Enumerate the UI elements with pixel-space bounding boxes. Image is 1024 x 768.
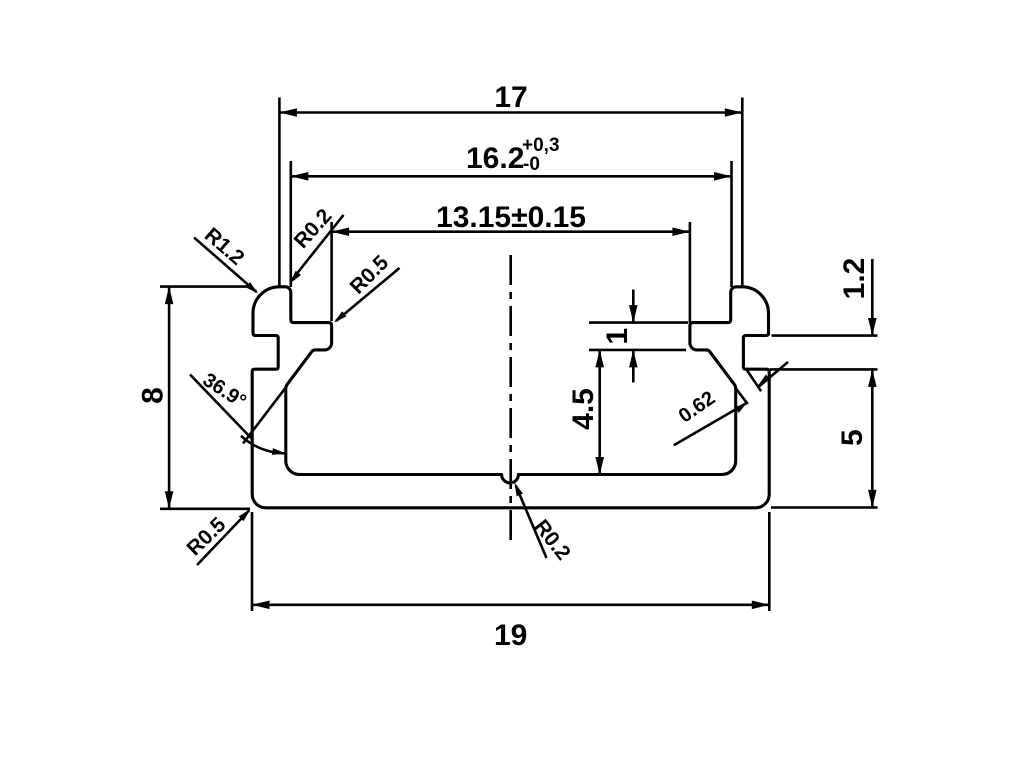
label R1.2 (lobe outer radius)	[194, 223, 260, 296]
label R0.2 (top lip corner radius)	[287, 204, 343, 285]
svg-text:5: 5	[836, 429, 869, 446]
dimension 5 (right, base height)	[770, 369, 878, 507]
svg-text:-0: -0	[523, 154, 540, 175]
label R0.5 (hook ledge corner radius)	[332, 251, 400, 325]
centerline	[509, 255, 512, 547]
dimension 1.2 (right, flange thickness)	[772, 258, 878, 336]
svg-text:8: 8	[137, 387, 170, 404]
dimension 19 (bottom width)	[252, 512, 769, 652]
label R0.5 (bottom corner radius)	[183, 507, 253, 565]
svg-text:4.5: 4.5	[567, 388, 600, 430]
dimension 4.5 (inner depth)	[567, 350, 604, 475]
svg-text:1: 1	[601, 328, 634, 345]
svg-text:17: 17	[494, 81, 527, 114]
svg-text:13.15±0.15: 13.15±0.15	[436, 201, 586, 234]
profile cross-section outline	[252, 287, 769, 508]
svg-text:19: 19	[494, 619, 527, 652]
dimension 13.15±0.15	[332, 201, 690, 323]
svg-text:R0.2: R0.2	[290, 204, 337, 252]
label R0.2 (floor dimple radius)	[511, 481, 574, 564]
dimension 17	[279, 81, 742, 286]
svg-text:+0,3: +0,3	[522, 135, 560, 156]
svg-text:1.2: 1.2	[838, 258, 871, 300]
svg-text:R0.2: R0.2	[529, 515, 574, 564]
svg-text:36.9°: 36.9°	[199, 369, 250, 413]
angle 36.9°	[190, 369, 286, 457]
svg-text:16.2: 16.2	[466, 142, 524, 175]
dimension 1 (hook height)	[589, 290, 688, 383]
dimension 16.2 +0,3/-0	[291, 135, 732, 287]
dimension 8 (left height)	[137, 287, 252, 509]
label 0.62 (wall thickness) with leader	[674, 362, 788, 445]
